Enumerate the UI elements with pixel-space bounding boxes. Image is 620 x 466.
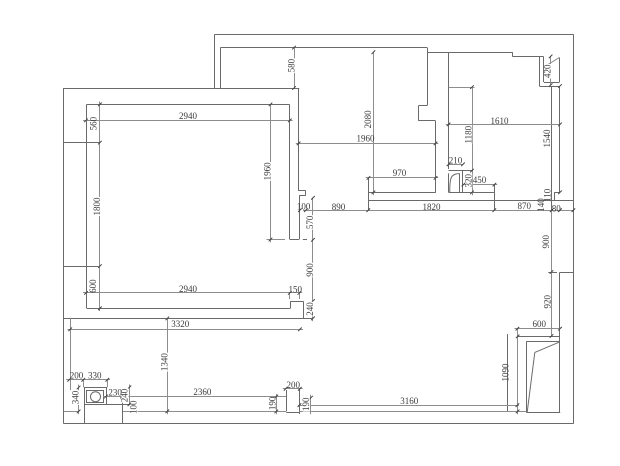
dim text 190 (vertical): [303, 397, 310, 412]
left room top inner: [87, 104, 290, 106]
tick: [367, 208, 371, 212]
east outer lower: [299, 195, 301, 239]
tick: [284, 387, 288, 391]
dim row 200/330: [66, 379, 110, 381]
tick: [470, 169, 474, 173]
svg-text:450: 450: [473, 175, 487, 185]
step h y120: [419, 120, 436, 122]
tick: [269, 238, 273, 242]
tick: [275, 395, 279, 399]
top bump left outer: [214, 34, 216, 88]
dim 340 col: [78, 385, 80, 415]
tick: [434, 142, 438, 146]
tick: [298, 291, 302, 295]
step v x418: [418, 106, 420, 121]
flue left inner: [543, 57, 545, 82]
dim 190R col: [310, 395, 312, 414]
door210 jamb: [462, 171, 464, 193]
svg-text:1180: 1180: [463, 125, 473, 143]
top band inner right: [513, 56, 544, 58]
east wall cap: [290, 239, 300, 241]
bottom wall: [64, 423, 574, 425]
tick: [98, 103, 102, 107]
dim row 3320: [68, 329, 304, 331]
ext col x70: [70, 318, 72, 390]
tick: [98, 307, 102, 311]
door210 right: [459, 173, 461, 192]
tick: [275, 410, 279, 414]
dim 580 col: [294, 48, 296, 88]
svg-text:240: 240: [120, 388, 130, 402]
strip right v: [494, 185, 496, 211]
flue left outer: [539, 57, 541, 86]
svg-text:2940: 2940: [179, 111, 198, 121]
svg-text:140: 140: [536, 198, 546, 212]
dim 900/920 col: [551, 210, 553, 336]
left wall divider 2: [64, 266, 99, 268]
svg-text:100: 100: [129, 400, 139, 414]
dim text 580 (vertical): [288, 58, 295, 73]
tick: [470, 85, 474, 89]
alcove v x122: [122, 397, 124, 424]
tick: [434, 176, 438, 180]
left wall divider 1: [64, 142, 100, 144]
door210 top: [449, 170, 472, 172]
cap stub right: [303, 239, 307, 241]
tick: [120, 395, 124, 399]
dim 1090 col: [517, 336, 519, 414]
right wall face x560: [559, 86, 561, 192]
dim text 1800 (vertical): [94, 197, 101, 216]
svg-text:190: 190: [301, 397, 311, 411]
tick: [128, 403, 132, 407]
ext stub x517 a: [517, 329, 519, 337]
tick: [549, 55, 553, 59]
right jog tick line: [548, 272, 557, 274]
step h y105: [419, 105, 428, 107]
tick: [106, 378, 110, 382]
closet diag a: [535, 342, 560, 353]
jamb right x299: [299, 389, 301, 414]
svg-text:580: 580: [287, 58, 297, 72]
tick: [304, 208, 308, 212]
svg-text:3320: 3320: [171, 319, 190, 329]
tick: [558, 208, 562, 212]
tick: [516, 327, 520, 331]
dim 420 col: [550, 56, 552, 85]
flue bottom inner: [544, 82, 560, 84]
tick: [516, 403, 520, 407]
left room east inner: [289, 104, 291, 239]
tick: [470, 191, 474, 195]
tick: [367, 176, 371, 180]
svg-text:900: 900: [541, 235, 551, 249]
step v x427: [427, 48, 429, 106]
dim 450 row: [463, 184, 497, 186]
tick: [311, 238, 315, 242]
top band inner mid: [427, 52, 512, 54]
right inner wall upper: [551, 86, 553, 210]
tick foot 1960v: [267, 239, 286, 241]
mid jog v x303: [303, 301, 305, 318]
strip left v: [368, 178, 370, 210]
tick: [311, 299, 315, 303]
svg-text:1340: 1340: [159, 353, 169, 372]
tick: [82, 378, 86, 382]
tick: [288, 291, 292, 295]
dim 1340 col: [167, 318, 169, 414]
dim text 900 (vertical): [307, 263, 314, 278]
dim text 240 (vertical): [121, 388, 128, 403]
svg-text:2080: 2080: [363, 110, 373, 128]
notch top: [299, 190, 306, 192]
ext stub x289 b: [289, 293, 291, 299]
tick: [292, 46, 296, 50]
right outer wall: [573, 34, 575, 423]
tick: [309, 396, 313, 400]
tick: [298, 328, 302, 332]
dim text 570 (vertical): [307, 215, 314, 230]
notch right: [305, 191, 307, 195]
tick: [298, 208, 302, 212]
tick: [550, 208, 554, 212]
svg-text:1960: 1960: [262, 162, 272, 181]
mid wall v x448: [448, 52, 450, 169]
dim row 2940b: [83, 292, 302, 294]
svg-text:1820: 1820: [423, 202, 442, 212]
ext stub x299 b: [299, 293, 301, 299]
tick: [372, 50, 376, 54]
left room top outer: [64, 88, 299, 90]
left room east outer: [298, 88, 300, 191]
svg-text:570: 570: [305, 215, 315, 229]
step v x512: [512, 52, 514, 56]
tick: [269, 103, 273, 107]
row y318: [64, 318, 313, 320]
tick: [68, 328, 72, 332]
dim row y411 a: [64, 411, 79, 413]
dim text 1960 (vertical): [264, 162, 271, 181]
dim text 320 (vertical): [465, 173, 472, 188]
tick: [447, 123, 451, 127]
tick: [558, 191, 562, 195]
svg-text:900: 900: [305, 263, 315, 277]
dim 2080 col: [373, 52, 375, 195]
fixture circle: [91, 392, 101, 402]
svg-text:1610: 1610: [491, 116, 510, 126]
tick: [67, 378, 71, 382]
dim 1180/320 col: [472, 87, 474, 195]
sill y412: [286, 412, 299, 414]
top outer band: [215, 34, 574, 36]
svg-text:150: 150: [289, 284, 303, 294]
dim 1610 row: [446, 124, 560, 126]
dim text 100 (vertical): [131, 400, 138, 415]
dim row y411 b: [123, 411, 286, 413]
dim text 1180 (vertical): [465, 125, 472, 144]
lower right jog h: [560, 272, 574, 274]
dim text 240 (vertical): [307, 302, 314, 317]
dim text 340 (vertical): [72, 390, 79, 405]
tick: [516, 410, 520, 414]
tick: [462, 183, 466, 187]
tick: [558, 327, 562, 331]
dim 1960v col: [270, 104, 272, 242]
svg-text:890: 890: [332, 202, 346, 212]
left inner wall: [86, 104, 88, 308]
dim 190L col: [276, 394, 278, 414]
svg-text:3160: 3160: [400, 396, 419, 406]
fixture square outer: [85, 388, 107, 405]
svg-text:2360: 2360: [193, 387, 212, 397]
ext stub x107: [107, 380, 109, 388]
svg-text:970: 970: [393, 168, 407, 178]
tick: [98, 141, 102, 145]
dim 970 row: [366, 177, 439, 179]
svg-text:600: 600: [532, 319, 546, 329]
tick: [311, 317, 315, 321]
tick: [128, 386, 132, 390]
mid wall h y308: [87, 308, 291, 310]
svg-text:210: 210: [449, 155, 463, 165]
dim 210 row: [449, 164, 464, 166]
svg-text:200: 200: [286, 380, 300, 390]
top bump left inner: [220, 48, 222, 88]
strip top left: [368, 192, 435, 194]
tick: [493, 183, 497, 187]
tick: [558, 123, 562, 127]
dim 240bl col: [129, 385, 131, 405]
svg-text:330: 330: [88, 371, 102, 381]
tick: [298, 387, 302, 391]
shelf h y404: [84, 404, 130, 406]
door leaf curve: [450, 174, 460, 193]
svg-text:600: 600: [88, 279, 98, 293]
dim 3160 row: [298, 405, 519, 407]
tick: [549, 83, 553, 87]
ext h y87: [449, 87, 475, 89]
tick: [292, 86, 296, 90]
tick: [84, 291, 88, 295]
svg-text:920: 920: [542, 295, 552, 309]
door210 left: [448, 173, 450, 192]
svg-text:1540: 1540: [542, 129, 552, 148]
tick: [372, 191, 376, 195]
closet top outer: [517, 336, 560, 338]
closet left: [526, 342, 528, 412]
dim text 1340 (vertical): [161, 353, 168, 372]
svg-text:190: 190: [268, 396, 278, 410]
svg-text:100: 100: [297, 202, 311, 212]
tick: [493, 208, 497, 212]
notch bottom: [299, 195, 306, 197]
jamb left x286: [286, 390, 288, 411]
closet top inner: [526, 341, 560, 343]
svg-text:320: 320: [463, 174, 473, 188]
tick: [550, 334, 554, 338]
dim row y210: [303, 210, 573, 212]
leader 420: [548, 57, 559, 64]
dim 200bm row: [283, 388, 303, 390]
tick: [298, 403, 302, 407]
closet jamb v x507: [507, 334, 509, 412]
flue bottom outer: [539, 86, 560, 88]
fixture square inner: [87, 391, 104, 403]
tick: [550, 270, 554, 274]
jog v x554: [554, 192, 556, 200]
dim 230/2360 row: [103, 396, 286, 398]
svg-text:200: 200: [70, 371, 84, 381]
dim 1960h row: [296, 143, 439, 145]
jog h y192: [554, 192, 560, 194]
tick: [558, 84, 562, 88]
strip bottom: [368, 200, 573, 202]
tick: [461, 163, 465, 167]
mid wall v x435: [435, 121, 437, 193]
dim row top2940: [83, 120, 293, 122]
tick: [288, 119, 292, 123]
tick: [77, 410, 81, 414]
alcove v x84: [84, 404, 86, 424]
tick: [166, 410, 170, 414]
tick: [297, 142, 301, 146]
dim 600r row: [515, 328, 561, 330]
tick: [311, 196, 315, 200]
svg-text:1800: 1800: [92, 197, 102, 216]
svg-text:2940: 2940: [179, 284, 198, 294]
tick: [104, 395, 108, 399]
mid jog h y301: [290, 301, 303, 303]
svg-text:240: 240: [305, 302, 315, 316]
lower right wall inner: [559, 272, 561, 412]
tick: [84, 119, 88, 123]
top band inner left: [220, 47, 427, 49]
ext stub x83: [83, 380, 85, 388]
svg-text:1960: 1960: [357, 134, 376, 144]
flue right: [559, 57, 561, 82]
tick: [447, 163, 451, 167]
svg-text:870: 870: [518, 201, 532, 211]
left outer wall: [63, 88, 65, 424]
tick: [77, 386, 81, 390]
closet diag b: [527, 352, 535, 412]
tick: [516, 335, 520, 339]
closet bottom: [526, 412, 560, 414]
svg-text:340: 340: [71, 390, 81, 404]
svg-text:1090: 1090: [501, 363, 511, 382]
dim 560/1800/600 col: [99, 102, 101, 312]
svg-text:560: 560: [88, 116, 98, 130]
dim 570/900/240 col: [312, 198, 314, 321]
tick: [166, 317, 170, 321]
dim row y411 c: [299, 411, 526, 413]
mid jog v x290: [290, 301, 292, 308]
svg-text:80: 80: [552, 204, 562, 214]
svg-text:420: 420: [542, 64, 552, 78]
strip top right: [449, 192, 494, 194]
tick: [572, 208, 576, 212]
dim text 420 (vertical): [544, 64, 551, 79]
tick: [98, 264, 102, 268]
